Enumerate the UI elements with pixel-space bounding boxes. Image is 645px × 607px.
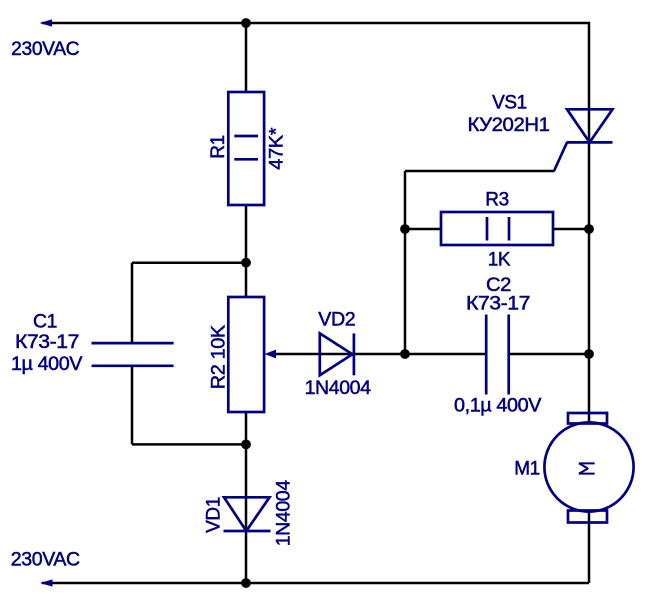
svg-text:КУ202Н1: КУ202Н1: [468, 115, 550, 136]
svg-text:VD1: VD1: [203, 497, 224, 533]
svg-text:1N4004: 1N4004: [274, 479, 295, 546]
svg-text:1N4004: 1N4004: [305, 378, 372, 399]
svg-text:К73-17: К73-17: [15, 332, 79, 353]
svg-text:R3: R3: [485, 190, 509, 211]
svg-text:230VAC: 230VAC: [11, 39, 79, 60]
svg-text:R1: R1: [208, 135, 229, 159]
svg-text:VS1: VS1: [492, 93, 527, 114]
svg-text:C1: C1: [33, 312, 57, 333]
svg-text:VD2: VD2: [318, 310, 355, 331]
svg-text:1K: 1K: [488, 250, 511, 271]
svg-text:К73-17: К73-17: [466, 294, 530, 315]
svg-text:1µ 400V: 1µ 400V: [11, 354, 83, 375]
svg-text:M1: M1: [514, 459, 540, 480]
svg-text:47K*: 47K*: [267, 127, 288, 170]
svg-text:R2 10K: R2 10K: [209, 324, 230, 389]
svg-text:0,1µ 400V: 0,1µ 400V: [454, 396, 542, 417]
svg-text:230VAC: 230VAC: [11, 550, 80, 571]
